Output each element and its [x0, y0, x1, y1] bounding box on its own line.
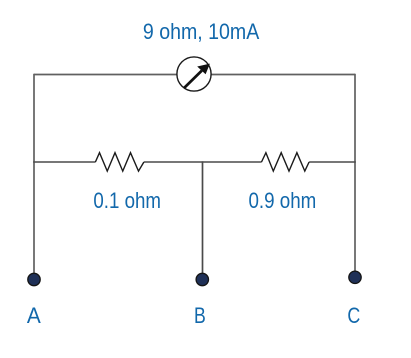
- svg-text:B: B: [194, 303, 206, 328]
- svg-text:0.1 ohm: 0.1 ohm: [93, 188, 161, 213]
- wire center vertical (node B junction to terminal B): [202, 161, 204, 274]
- wire left vertical (top rail to terminal A): [33, 74, 35, 274]
- galvanometer G circle (9 ohm, 10mA meter): [177, 57, 211, 91]
- terminal dot B: [196, 273, 208, 285]
- wire middle-right horizontal (resistor 0.9 ohm to node C): [309, 161, 356, 163]
- galvanometer needle shaft: [184, 71, 202, 88]
- resistor 0.9 ohm zigzag: [262, 153, 310, 171]
- wire middle-left horizontal (node A to resistor 0.1 ohm): [33, 161, 95, 163]
- terminal dot C: [349, 271, 361, 283]
- wire top-right horizontal (galvanometer to node C): [211, 74, 355, 76]
- svg-text:C: C: [347, 303, 360, 328]
- svg-text:9 ohm, 10mA: 9 ohm, 10mA: [143, 19, 260, 44]
- terminal dot A: [28, 273, 40, 285]
- wire middle-center horizontal (resistor 0.1 ohm to resistor 0.9 ohm): [144, 161, 262, 163]
- wire right vertical (top rail to terminal C): [354, 74, 356, 272]
- wire top-left horizontal (node A to galvanometer): [34, 74, 177, 76]
- svg-text:A: A: [27, 303, 41, 328]
- resistor 0.1 ohm zigzag: [95, 153, 143, 171]
- galvanometer needle arrowhead: [197, 64, 210, 75]
- svg-text:0.9 ohm: 0.9 ohm: [249, 188, 317, 213]
